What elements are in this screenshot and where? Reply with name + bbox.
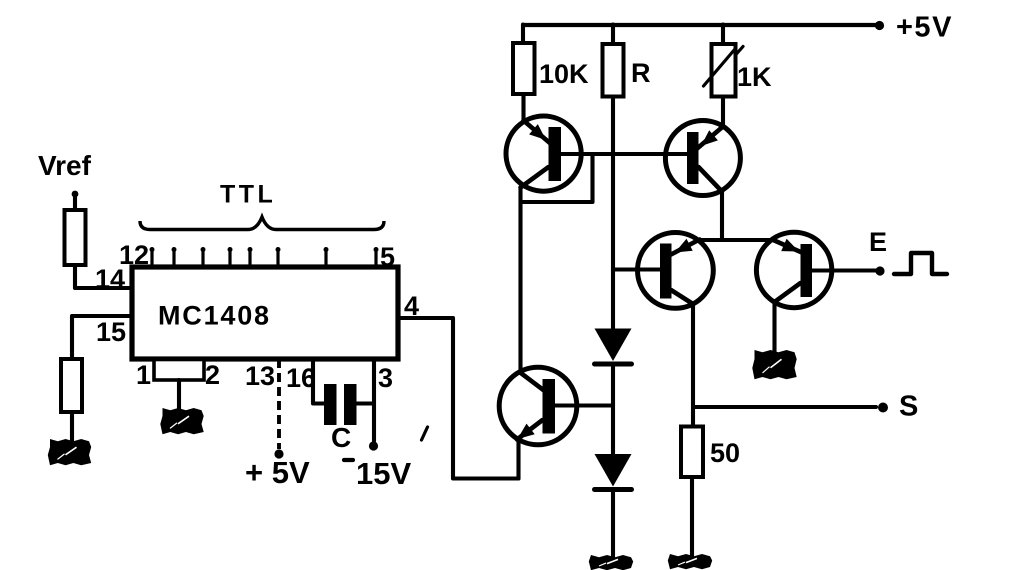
transistor Q3 (638, 233, 714, 309)
wire Q4 collector to node E (812, 268, 880, 272)
wire R2 to ground (70, 412, 74, 441)
wire pin 15 to R2 (72, 316, 132, 360)
svg-text:Vref: Vref (38, 150, 92, 181)
wire rail to R4 (521, 25, 525, 45)
wire R5 to diode chain (611, 97, 615, 331)
wire node S line (693, 405, 876, 409)
wire rail to R6 (721, 25, 725, 46)
ground under Q4 emitter (752, 350, 796, 379)
svg-text:TTL: TTL (220, 181, 276, 209)
node E dot (875, 266, 884, 275)
ground under R7 (668, 554, 712, 569)
TTL input pin tick 4 (228, 247, 233, 252)
wire capacitor C to pin 3 (357, 401, 375, 405)
resistor R1 (Vref series) (65, 210, 86, 265)
wire Q1 base-collector tie (521, 154, 593, 202)
wire D2 to ground (611, 490, 615, 558)
pulse waveform icon (894, 253, 947, 274)
svg-text:1K: 1K (737, 62, 772, 92)
wire Q1 collector to Q5 collector (518, 189, 522, 372)
wire Q3 base to diode chain (613, 267, 660, 271)
svg-text:15: 15 (96, 317, 126, 347)
diode D1 (595, 329, 632, 362)
svg-text:+ 5V: + 5V (245, 455, 310, 490)
transistor Q5 (499, 367, 577, 445)
resistor R6 1K variable (712, 44, 736, 97)
diode D2 (595, 454, 632, 487)
svg-text:C: C (331, 422, 351, 453)
svg-text:S: S (899, 391, 918, 423)
ground under diode chain (589, 555, 633, 570)
wire pin 4 to Q5 emitter (398, 318, 519, 479)
wire pin 16 to capacitor C (313, 359, 325, 404)
wire pin 13 to +5V terminal (277, 359, 281, 449)
transistor Q4 (756, 232, 831, 307)
svg-text:12: 12 (119, 240, 149, 270)
node S dot (878, 403, 888, 413)
wire Q1 base to Q2 base (561, 152, 687, 156)
resistor R3 between pins 1 and 2 (154, 360, 204, 381)
ground under R2 (48, 439, 91, 465)
svg-text:15V: 15V (356, 456, 411, 491)
wire R4 to Q1 collector (521, 94, 525, 121)
wire Q2 emitter to Q4 base line (720, 190, 724, 240)
svg-text:13: 13 (245, 361, 275, 391)
svg-text:10K: 10K (539, 59, 589, 89)
wire Q5 base to diode chain (555, 403, 613, 407)
svg-text:50: 50 (710, 438, 740, 468)
transistor Q2 (665, 121, 740, 196)
svg-text:R: R (631, 58, 651, 88)
resistor R4 10K (513, 43, 535, 94)
wire pin 3 to -15V terminal (372, 359, 376, 441)
svg-text:MC1408: MC1408 (158, 301, 271, 331)
wire Q5 emitter down to pin4 wire (516, 438, 520, 479)
node -15V terminal dot (369, 441, 378, 450)
wire Q4 emitter to ground (772, 301, 776, 351)
node Vref terminal dot (72, 191, 79, 198)
svg-text:3: 3 (378, 363, 393, 393)
TTL input pin tick 8 (374, 247, 379, 252)
tick mark near -15V (422, 427, 428, 440)
TTL input pin tick 1 (150, 247, 155, 252)
transistor Q1 (506, 116, 581, 191)
ground under pins 1-2 (160, 408, 203, 434)
node +5V terminal dot (pin 13) (274, 449, 283, 458)
TTL input pin tick 7 (324, 247, 329, 252)
label -15V (344, 458, 353, 462)
wire Q3 collector to Q4 base (697, 238, 772, 242)
svg-text:+5V: +5V (896, 12, 953, 44)
TTL input pin tick 6 (276, 247, 281, 252)
svg-text:1: 1 (136, 360, 151, 390)
wire Vref terminal to R1 (73, 196, 77, 211)
svg-text:2: 2 (205, 360, 220, 390)
slash on R6 (variable) (704, 49, 736, 86)
wire R1 to pin 14 (75, 265, 130, 288)
resistor R5 R (603, 44, 624, 97)
svg-text:E: E (869, 227, 887, 257)
+5V supply rail (523, 23, 877, 27)
resistor R7 50 (681, 427, 703, 478)
capacitor C plates (324, 384, 337, 425)
wire rail to R5 (611, 25, 615, 46)
IC U1 MC1408 body (132, 267, 398, 359)
wire R3 to ground (177, 380, 181, 410)
wire between D1 and D2 (611, 364, 615, 454)
TTL input pin tick 3 (201, 247, 206, 252)
wire Q3 emitter to S junction and R7 (691, 303, 695, 428)
TTL input pin tick 5 (248, 247, 253, 252)
TTL input pin tick 2 (172, 247, 177, 252)
node +5V rail dot (875, 21, 884, 30)
wire R6 to Q2 collector (721, 97, 725, 127)
svg-text:5: 5 (380, 242, 395, 272)
resistor R2 (pin 15) (61, 359, 82, 412)
wire R7 to ground (690, 477, 694, 556)
brace TTL (140, 217, 384, 230)
